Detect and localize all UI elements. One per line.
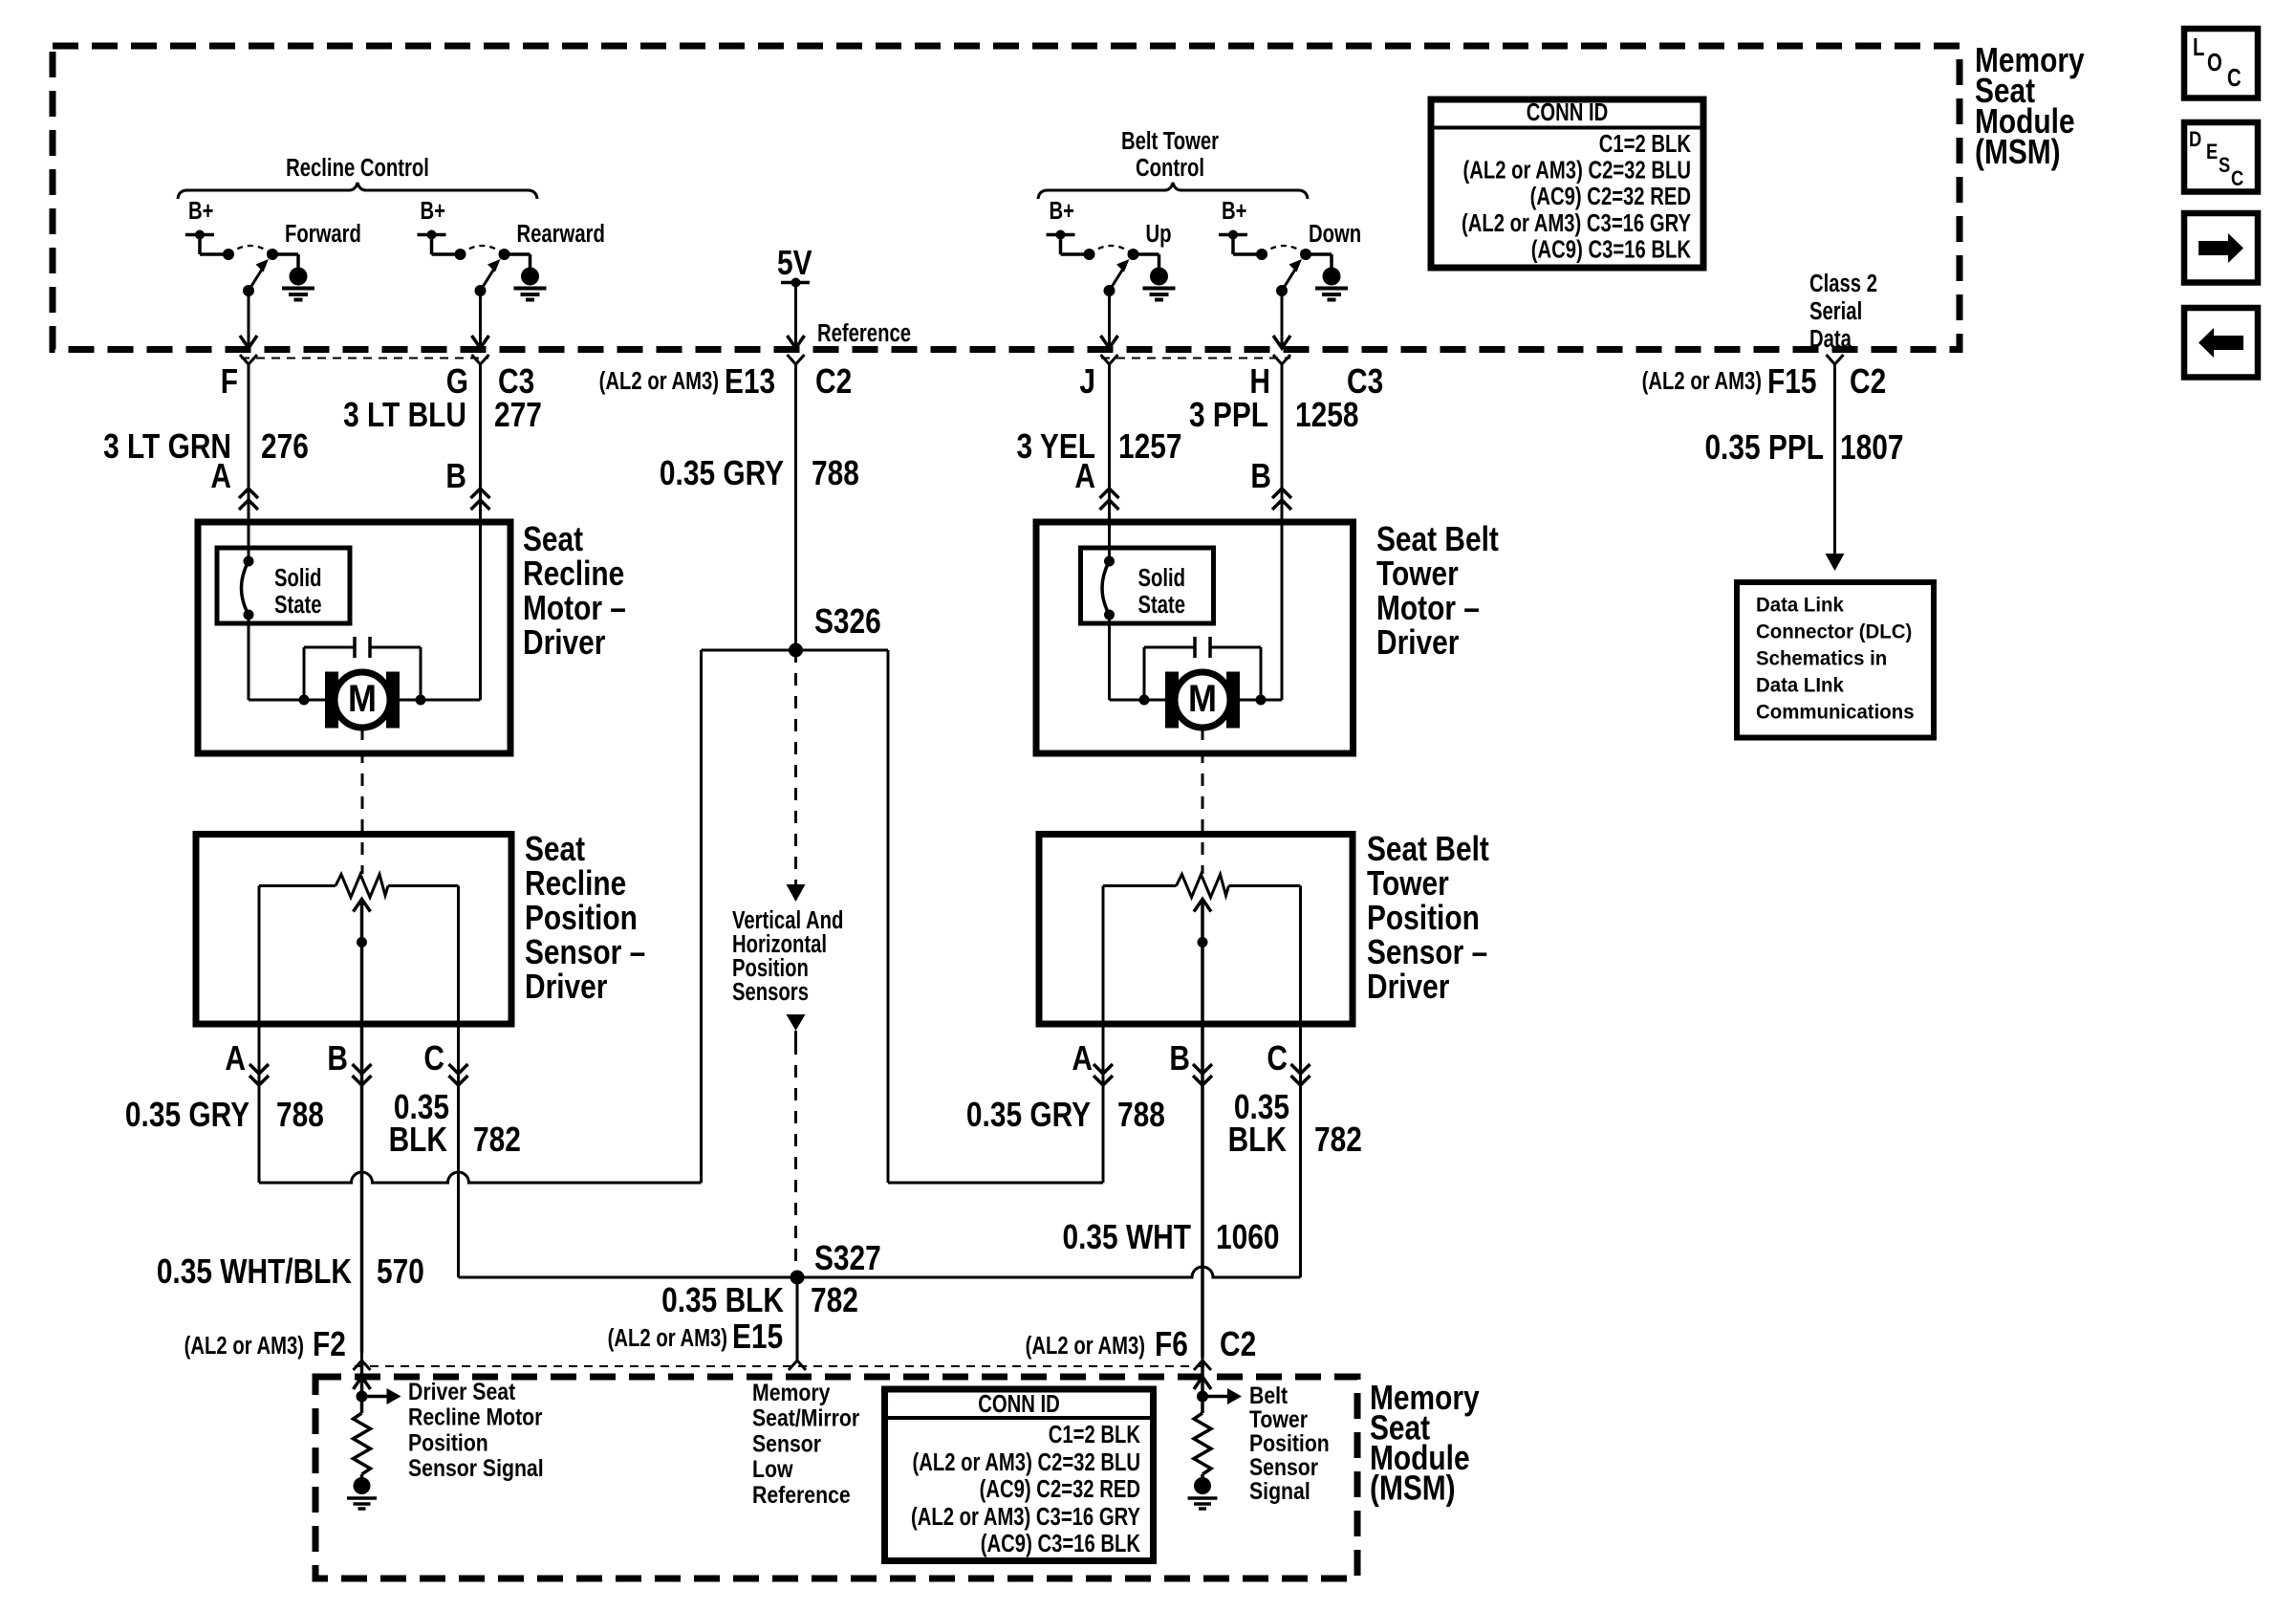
svg-text:M: M bbox=[348, 678, 377, 720]
svg-text:(AL2 or AM3) C3=16 GRY: (AL2 or AM3) C3=16 GRY bbox=[1462, 209, 1691, 237]
svg-text:C2: C2 bbox=[1850, 362, 1886, 401]
svg-text:Motor –: Motor – bbox=[1376, 589, 1480, 627]
svg-text:Driver: Driver bbox=[1376, 623, 1459, 662]
svg-text:3 PPL: 3 PPL bbox=[1189, 396, 1268, 434]
svg-text:C: C bbox=[423, 1039, 444, 1078]
svg-text:Sensor: Sensor bbox=[1249, 1453, 1318, 1480]
svg-text:(AL2 or AM3): (AL2 or AM3) bbox=[599, 367, 719, 395]
svg-text:CONN ID: CONN ID bbox=[1527, 98, 1609, 126]
svg-text:1258: 1258 bbox=[1295, 396, 1358, 434]
svg-text:Driver Seat: Driver Seat bbox=[408, 1378, 515, 1404]
svg-text:B+: B+ bbox=[421, 197, 445, 225]
svg-text:Seat: Seat bbox=[523, 520, 583, 558]
svg-text:1060: 1060 bbox=[1216, 1218, 1279, 1256]
svg-text:O: O bbox=[2207, 49, 2222, 76]
svg-text:BLK: BLK bbox=[1228, 1121, 1288, 1159]
svg-text:Tower: Tower bbox=[1249, 1405, 1308, 1432]
svg-text:0.35 PPL: 0.35 PPL bbox=[1704, 428, 1824, 467]
svg-text:M: M bbox=[1188, 678, 1217, 720]
svg-text:A: A bbox=[210, 457, 231, 495]
svg-text:(AL2 or AM3): (AL2 or AM3) bbox=[1642, 367, 1762, 395]
svg-text:276: 276 bbox=[261, 427, 309, 466]
svg-text:(MSM): (MSM) bbox=[1370, 1469, 1456, 1508]
svg-text:Communications: Communications bbox=[1756, 701, 1915, 724]
svg-text:788: 788 bbox=[1117, 1096, 1165, 1134]
svg-text:Motor –: Motor – bbox=[523, 589, 626, 627]
svg-text:5V: 5V bbox=[777, 244, 812, 282]
svg-text:782: 782 bbox=[473, 1121, 521, 1159]
svg-text:Reference: Reference bbox=[752, 1481, 851, 1508]
svg-text:S327: S327 bbox=[814, 1239, 881, 1277]
svg-text:B+: B+ bbox=[188, 197, 213, 225]
svg-text:(AL2 or AM3) C2=32 BLU: (AL2 or AM3) C2=32 BLU bbox=[1462, 156, 1691, 184]
svg-text:Up: Up bbox=[1146, 220, 1172, 248]
svg-text:Signal: Signal bbox=[1249, 1477, 1310, 1504]
svg-text:570: 570 bbox=[377, 1252, 424, 1291]
svg-text:Seat Belt: Seat Belt bbox=[1367, 830, 1489, 868]
svg-text:F15: F15 bbox=[1767, 362, 1816, 401]
svg-text:1807: 1807 bbox=[1840, 428, 1903, 467]
svg-text:(AL2 or AM3): (AL2 or AM3) bbox=[1026, 1332, 1145, 1360]
svg-text:0.35 BLK: 0.35 BLK bbox=[661, 1281, 784, 1319]
svg-text:Sensor –: Sensor – bbox=[1367, 933, 1487, 971]
svg-text:(AC9) C3=16 BLK: (AC9) C3=16 BLK bbox=[1531, 235, 1691, 263]
svg-text:Low: Low bbox=[752, 1455, 793, 1482]
svg-text:C: C bbox=[2231, 168, 2244, 191]
svg-text:Sensor: Sensor bbox=[752, 1430, 821, 1457]
svg-text:S326: S326 bbox=[814, 602, 881, 641]
svg-text:F2: F2 bbox=[313, 1325, 346, 1363]
svg-text:Recline: Recline bbox=[525, 864, 626, 903]
svg-text:A: A bbox=[225, 1039, 246, 1078]
svg-text:Recline: Recline bbox=[523, 555, 624, 593]
svg-text:State: State bbox=[1138, 591, 1186, 619]
svg-text:3 LT BLU: 3 LT BLU bbox=[343, 396, 466, 434]
svg-text:C2: C2 bbox=[815, 362, 852, 401]
svg-text:B+: B+ bbox=[1050, 197, 1074, 225]
svg-text:0.35 GRY: 0.35 GRY bbox=[125, 1096, 249, 1134]
svg-text:788: 788 bbox=[276, 1096, 324, 1134]
svg-text:S: S bbox=[2219, 155, 2230, 178]
svg-text:Seat: Seat bbox=[525, 830, 585, 868]
svg-text:Recline Control: Recline Control bbox=[286, 154, 429, 182]
svg-text:BLK: BLK bbox=[389, 1121, 448, 1159]
svg-text:Solid: Solid bbox=[274, 564, 322, 592]
svg-text:Position: Position bbox=[1249, 1429, 1330, 1456]
svg-text:Driver: Driver bbox=[1367, 968, 1449, 1006]
svg-text:0.35 WHT: 0.35 WHT bbox=[1063, 1218, 1191, 1256]
svg-text:B: B bbox=[445, 457, 466, 495]
svg-text:(MSM): (MSM) bbox=[1975, 133, 2061, 171]
svg-text:C1=2 BLK: C1=2 BLK bbox=[1049, 1421, 1140, 1448]
svg-text:Belt: Belt bbox=[1249, 1382, 1288, 1408]
svg-text:Sensor Signal: Sensor Signal bbox=[408, 1454, 544, 1481]
svg-text:Data: Data bbox=[1809, 325, 1852, 353]
svg-text:Position: Position bbox=[1367, 899, 1480, 937]
svg-text:782: 782 bbox=[811, 1281, 858, 1319]
svg-text:C: C bbox=[2227, 64, 2242, 92]
svg-text:L: L bbox=[2193, 33, 2204, 61]
svg-text:Sensor –: Sensor – bbox=[525, 933, 645, 971]
svg-text:Position: Position bbox=[408, 1429, 488, 1456]
svg-text:C: C bbox=[1267, 1039, 1288, 1078]
svg-text:Schematics in: Schematics in bbox=[1756, 647, 1887, 670]
svg-text:Tower: Tower bbox=[1376, 555, 1459, 593]
svg-text:C1=2 BLK: C1=2 BLK bbox=[1599, 130, 1691, 158]
svg-text:B: B bbox=[1169, 1039, 1190, 1078]
svg-text:(AC9) C2=32 RED: (AC9) C2=32 RED bbox=[1530, 183, 1691, 210]
svg-text:(AL2 or AM3): (AL2 or AM3) bbox=[608, 1324, 727, 1352]
svg-text:Seat Belt: Seat Belt bbox=[1376, 520, 1499, 558]
svg-text:Seat/Mirror: Seat/Mirror bbox=[752, 1404, 859, 1431]
svg-text:Class 2: Class 2 bbox=[1809, 270, 1877, 297]
svg-text:(AL2 or AM3): (AL2 or AM3) bbox=[184, 1332, 304, 1360]
svg-text:Connector (DLC): Connector (DLC) bbox=[1756, 620, 1912, 643]
svg-text:Tower: Tower bbox=[1367, 864, 1449, 903]
svg-text:(AC9) C2=32 RED: (AC9) C2=32 RED bbox=[980, 1475, 1140, 1503]
svg-text:Control: Control bbox=[1136, 154, 1204, 182]
svg-text:(AL2 or AM3) C2=32 BLU: (AL2 or AM3) C2=32 BLU bbox=[912, 1448, 1140, 1476]
svg-text:C2: C2 bbox=[1220, 1325, 1256, 1363]
svg-text:Sensors: Sensors bbox=[732, 978, 809, 1006]
svg-text:Recline Motor: Recline Motor bbox=[408, 1404, 542, 1430]
svg-text:Driver: Driver bbox=[525, 968, 607, 1006]
svg-text:(AL2 or AM3) C3=16 GRY: (AL2 or AM3) C3=16 GRY bbox=[911, 1503, 1140, 1531]
svg-text:Driver: Driver bbox=[523, 623, 605, 662]
svg-text:0.35 GRY: 0.35 GRY bbox=[660, 454, 784, 492]
svg-text:CONN ID: CONN ID bbox=[978, 1390, 1060, 1418]
svg-text:B: B bbox=[1250, 457, 1271, 495]
svg-text:B: B bbox=[327, 1039, 348, 1078]
svg-text:B+: B+ bbox=[1222, 197, 1246, 225]
svg-text:State: State bbox=[274, 591, 322, 619]
svg-text:1257: 1257 bbox=[1118, 427, 1181, 466]
svg-text:Data LInk: Data LInk bbox=[1756, 674, 1844, 697]
svg-text:A: A bbox=[1072, 1039, 1093, 1078]
svg-text:0.35 WHT/BLK: 0.35 WHT/BLK bbox=[157, 1252, 352, 1291]
svg-text:D: D bbox=[2189, 129, 2201, 152]
svg-text:A: A bbox=[1074, 457, 1095, 495]
svg-text:Belt Tower: Belt Tower bbox=[1121, 127, 1219, 155]
svg-text:Solid: Solid bbox=[1138, 564, 1186, 592]
svg-text:F6: F6 bbox=[1155, 1325, 1188, 1363]
svg-text:Reference: Reference bbox=[817, 319, 911, 347]
svg-text:782: 782 bbox=[1314, 1121, 1362, 1159]
svg-text:Down: Down bbox=[1309, 220, 1361, 248]
svg-text:F: F bbox=[221, 362, 238, 401]
svg-text:Memory: Memory bbox=[752, 1379, 831, 1405]
svg-text:Rearward: Rearward bbox=[517, 220, 605, 248]
svg-text:J: J bbox=[1079, 362, 1095, 401]
svg-text:Position: Position bbox=[525, 899, 638, 937]
svg-text:E13: E13 bbox=[725, 362, 775, 401]
svg-text:E15: E15 bbox=[732, 1317, 783, 1356]
svg-text:0.35 GRY: 0.35 GRY bbox=[966, 1096, 1091, 1134]
svg-text:(AC9) C3=16 BLK: (AC9) C3=16 BLK bbox=[981, 1530, 1140, 1557]
svg-text:Data Link: Data Link bbox=[1756, 594, 1844, 617]
svg-text:788: 788 bbox=[812, 454, 859, 492]
svg-text:Forward: Forward bbox=[285, 220, 361, 248]
svg-text:E: E bbox=[2206, 142, 2218, 164]
svg-text:Serial: Serial bbox=[1809, 297, 1862, 325]
svg-text:277: 277 bbox=[494, 396, 542, 434]
